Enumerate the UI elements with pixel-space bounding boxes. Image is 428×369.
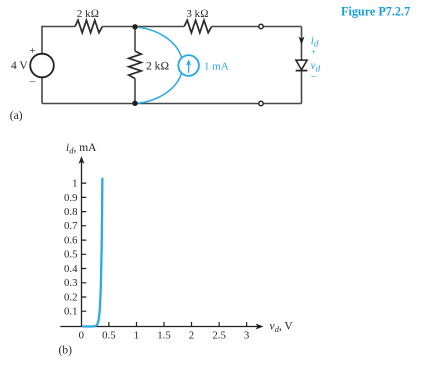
resistor R2 2 kΩ (vertical) <box>129 51 142 78</box>
node A (top junction dot) <box>132 24 137 29</box>
svg-text:(a): (a) <box>10 110 23 122</box>
svg-text:0.3: 0.3 <box>64 277 78 289</box>
svg-text:–: – <box>310 70 317 82</box>
svg-text:2 kΩ: 2 kΩ <box>77 8 99 20</box>
svg-text:Figure P7.2.7: Figure P7.2.7 <box>341 5 410 19</box>
svg-text:+: + <box>311 48 316 58</box>
wire: diode to bottom-right corner <box>301 71 303 104</box>
svg-text:0.1: 0.1 <box>64 306 78 318</box>
y tick labels 0.1–1 <box>64 178 78 318</box>
wire: R2 lead to node B <box>134 78 136 103</box>
svg-text:–: – <box>29 76 36 88</box>
y-axis with arrow <box>79 156 85 327</box>
resistor R1 2 kΩ (top left horizontal) <box>75 20 102 33</box>
current arrow i_d on right branch <box>299 37 305 45</box>
wire: cyan arc connecting current source between node A and node B <box>135 27 183 104</box>
wire: bottom-left up to source <box>41 78 43 104</box>
svg-text:0.9: 0.9 <box>64 192 78 204</box>
svg-text:0.2: 0.2 <box>64 291 78 303</box>
svg-text:0: 0 <box>79 330 84 342</box>
svg-text:4 V: 4 V <box>11 60 28 72</box>
svg-text:0.4: 0.4 <box>64 263 78 275</box>
x tick labels 0–3 <box>79 330 250 342</box>
svg-text:3: 3 <box>244 330 249 342</box>
svg-text:1 mA: 1 mA <box>204 60 229 72</box>
wire: node A to R3 <box>135 26 184 28</box>
svg-text:0.5: 0.5 <box>64 249 78 261</box>
wire: bottom rail <box>42 103 302 105</box>
diode D (cathode down) <box>296 60 308 71</box>
resistor R3 3 kΩ (top right horizontal) <box>184 20 211 33</box>
voltage source VS 4 V <box>30 54 54 78</box>
svg-text:1: 1 <box>72 178 77 190</box>
svg-text:1: 1 <box>134 330 139 342</box>
terminal (open circle, top) <box>259 24 263 28</box>
wire: right branch down to diode <box>301 27 303 60</box>
svg-text:vd, V: vd, V <box>270 321 294 335</box>
y-axis tick marks <box>82 183 87 311</box>
x-axis with arrow <box>60 324 263 330</box>
svg-text:0.8: 0.8 <box>64 206 78 218</box>
x-axis tick marks <box>109 322 247 327</box>
svg-text:0.7: 0.7 <box>64 220 78 232</box>
terminal (open circle, bottom) <box>259 101 263 105</box>
svg-text:1.5: 1.5 <box>157 330 171 342</box>
svg-text:2 kΩ: 2 kΩ <box>146 61 169 73</box>
svg-text:2: 2 <box>189 330 194 342</box>
svg-text:+: + <box>29 45 35 57</box>
svg-text:3 kΩ: 3 kΩ <box>186 8 208 20</box>
svg-text:0.5: 0.5 <box>102 330 116 342</box>
current source IS 1 mA (cyan) <box>178 55 199 76</box>
svg-text:(b): (b) <box>59 344 73 356</box>
svg-text:0.6: 0.6 <box>64 235 78 247</box>
diode i-v curve (cyan) <box>83 179 103 327</box>
wire: R3 to top-right corner <box>211 26 301 28</box>
wire: R2 lead from node A down <box>134 27 136 52</box>
svg-text:2.5: 2.5 <box>212 330 226 342</box>
node B (bottom junction dot) <box>132 101 137 106</box>
wire: R1 to node A <box>102 26 135 28</box>
wire: top-left from source up and right to R1 <box>42 27 75 54</box>
